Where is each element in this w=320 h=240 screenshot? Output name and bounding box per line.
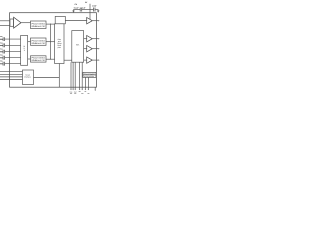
svg-text:plier: plier — [58, 46, 62, 49]
svg-text:0.1u: 0.1u — [0, 51, 3, 53]
svg-text:0.1u: 0.1u — [0, 45, 3, 47]
svg-text:0.1uF: 0.1uF — [74, 7, 80, 10]
svg-text:IN2+: IN2+ — [0, 42, 3, 44]
svg-text:0.1u: 0.1u — [0, 58, 3, 60]
svg-text:Phase Detect: Phase Detect — [32, 39, 46, 42]
svg-text:IN3+: IN3+ — [0, 49, 3, 51]
svg-text:IN4+: IN4+ — [0, 55, 3, 57]
svg-text:Interface: Interface — [24, 76, 31, 79]
svg-text:0.1u: 0.1u — [0, 39, 3, 41]
svg-text:0.1u: 0.1u — [0, 64, 3, 66]
svg-text:80dB/oct Filt: 80dB/oct Filt — [32, 25, 46, 28]
svg-text:Ref.: Ref. — [76, 43, 80, 46]
svg-text:80dB/oct Filt: 80dB/oct Filt — [32, 59, 46, 62]
svg-text:Phase Detect: Phase Detect — [32, 57, 46, 60]
svg-text:IN5+: IN5+ — [0, 61, 3, 63]
svg-text:Phase Detect: Phase Detect — [32, 22, 46, 25]
svg-text:80dB/oct Filt: 80dB/oct Filt — [32, 42, 46, 45]
svg-text:IN1+: IN1+ — [0, 36, 3, 38]
